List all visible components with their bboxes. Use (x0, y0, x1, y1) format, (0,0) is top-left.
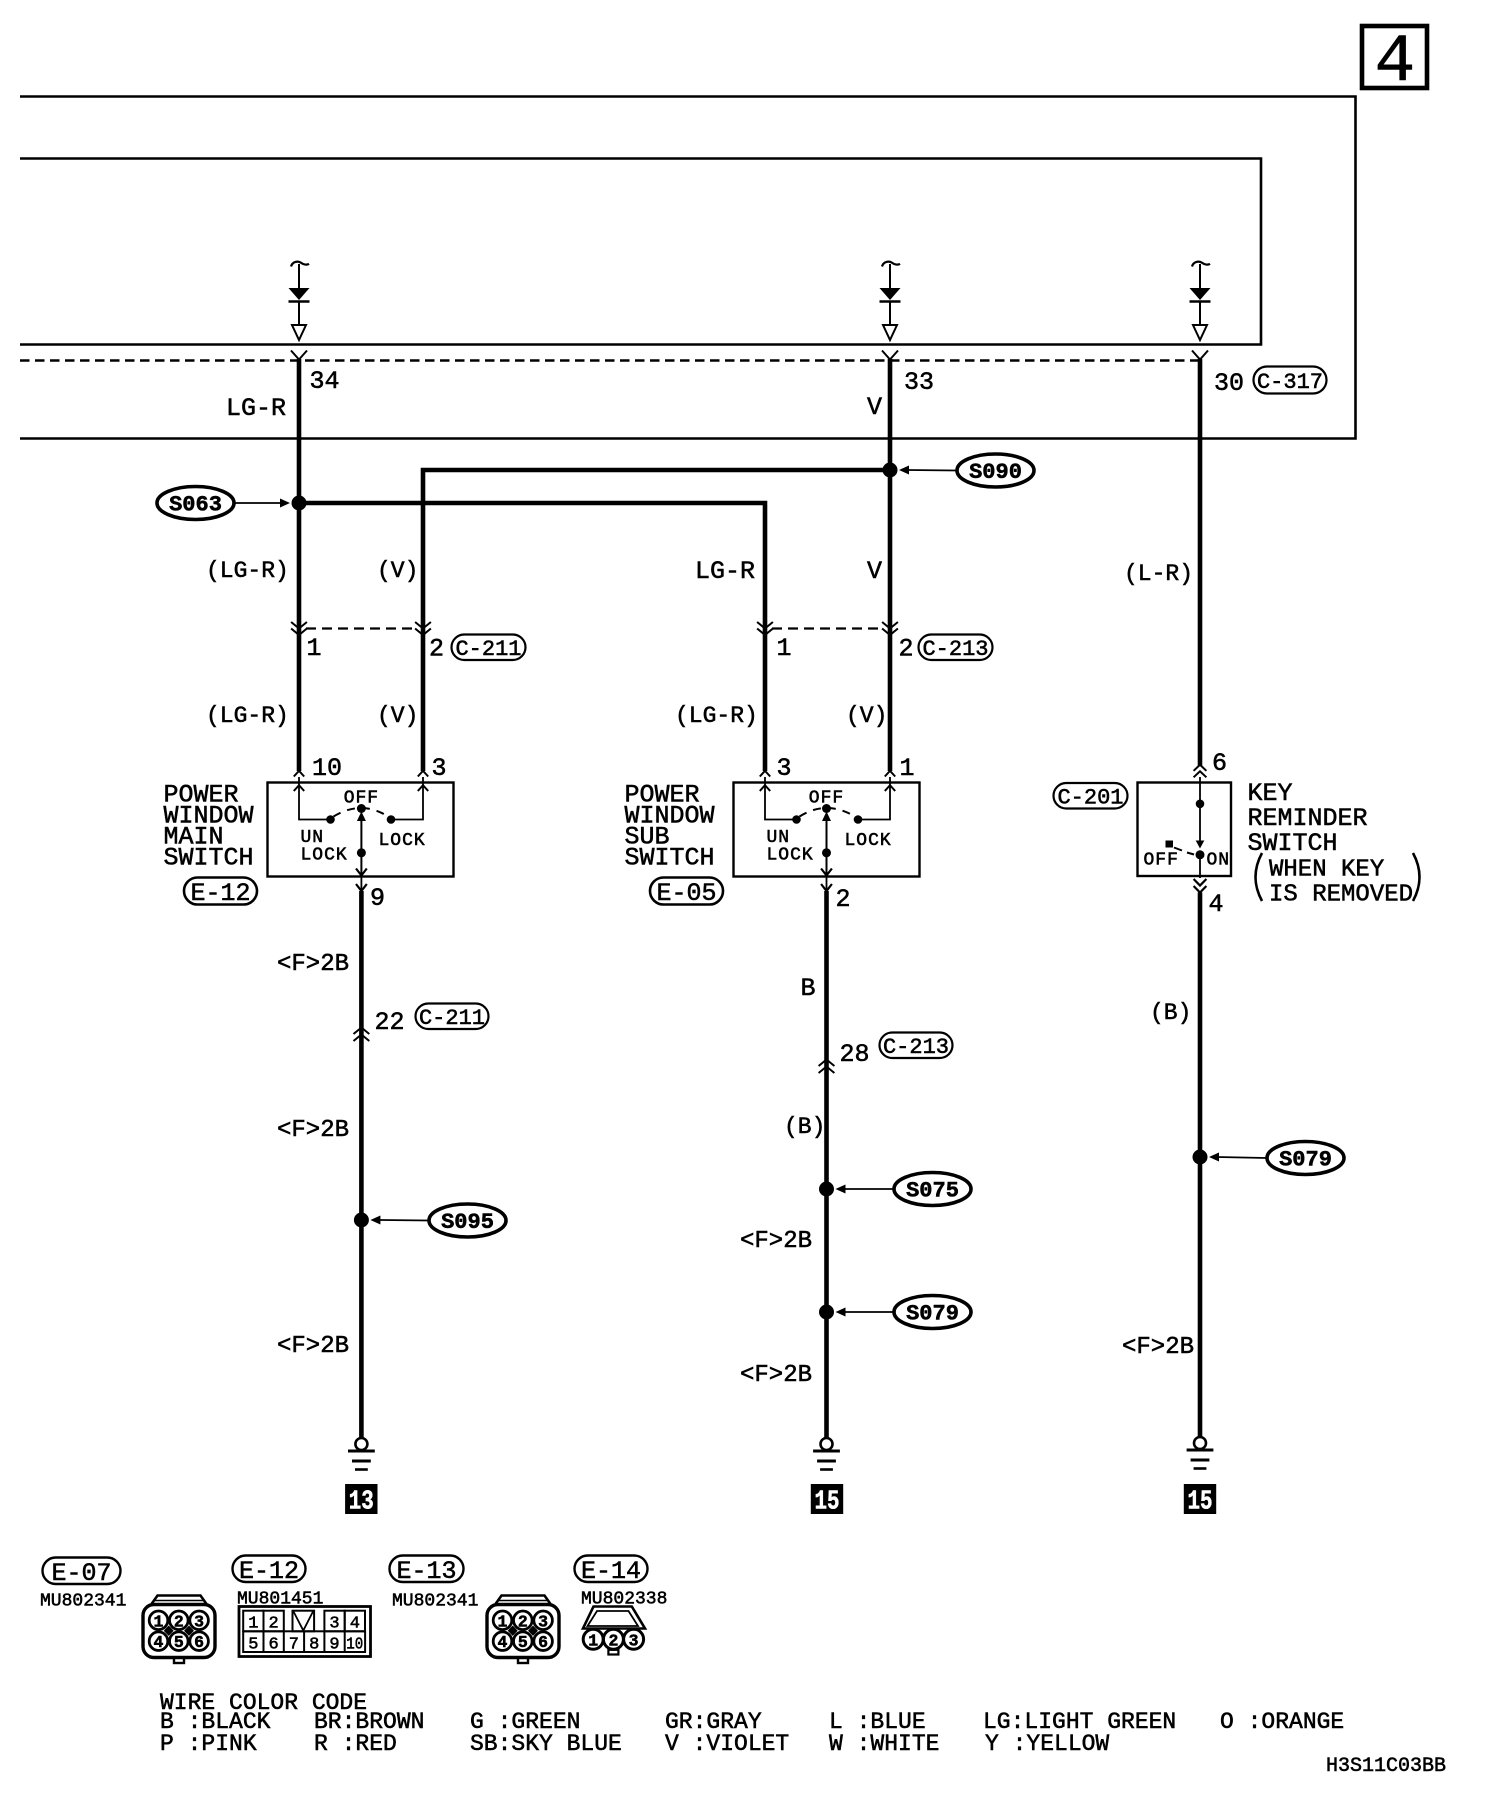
ground page ref 15 col3 (1184, 1484, 1216, 1518)
svg-text:<F>2B: <F>2B (277, 951, 349, 978)
splice S075 label (836, 1173, 972, 1206)
svg-text:3: 3 (538, 1612, 548, 1631)
svg-text:V: V (867, 393, 882, 422)
connector C-213 label lower (880, 1033, 953, 1061)
connector E-14 face view (583, 1607, 645, 1655)
wire W6 ground wire from key switch pin 4 (1198, 893, 1203, 1438)
label C-213 pin 2 (899, 635, 914, 664)
svg-text:P :PINK: P :PINK (160, 1731, 257, 1757)
node pin 34 pass-through C-317 (291, 351, 307, 360)
label pin 9 (370, 884, 385, 913)
label (WHEN KEY IS REMOVED) (1256, 853, 1420, 909)
splice S095 label (370, 1204, 506, 1237)
svg-text:6: 6 (538, 1633, 548, 1652)
label C-211 pin 1 (307, 634, 322, 663)
connector E-07 label (43, 1558, 121, 1588)
svg-text:C-213: C-213 (883, 1035, 949, 1060)
svg-text:(LG-R): (LG-R) (206, 703, 289, 729)
label POWER WINDOW MAIN SWITCH (164, 781, 254, 873)
label (F)2B col1 c (277, 1333, 349, 1360)
label (V) lower left (377, 703, 418, 729)
svg-text:LG-R: LG-R (695, 557, 755, 586)
label pin 33 (904, 368, 934, 397)
page number 4 box (1362, 24, 1427, 101)
splice S095 junction dot (354, 1213, 369, 1228)
wire inner harness box (20, 159, 1261, 345)
label WIRE COLOR CODE table (160, 1690, 1344, 1757)
wire W2 V vertical x=890 (888, 359, 893, 771)
svg-text:30: 30 (1214, 369, 1244, 398)
label pin 3 main (432, 754, 447, 783)
svg-text:10: 10 (346, 1635, 363, 1654)
svg-text:2: 2 (174, 1612, 184, 1631)
svg-text:S075: S075 (906, 1179, 959, 1204)
splice S079 label col2 (836, 1296, 972, 1329)
svg-text:<F>2B: <F>2B (740, 1362, 812, 1389)
svg-text:E-07: E-07 (51, 1559, 111, 1588)
label C-211 pin 2 (429, 635, 444, 664)
svg-text:13: 13 (349, 1488, 374, 1518)
ground G1 (348, 1438, 375, 1470)
label (B) col2 (784, 1114, 825, 1140)
svg-text:SB:SKY BLUE: SB:SKY BLUE (470, 1731, 622, 1757)
node pin 30 pass-through C-317 (1192, 351, 1208, 360)
label MU802341 E-07 (40, 1592, 126, 1612)
svg-text:2: 2 (836, 885, 851, 914)
svg-text:S079: S079 (906, 1302, 959, 1327)
svg-text:2: 2 (518, 1612, 528, 1631)
label (V) lower mid (846, 703, 887, 729)
svg-text:B: B (801, 974, 816, 1003)
label LG-R (695, 557, 755, 586)
label pin 2 (836, 885, 851, 914)
svg-text:2: 2 (608, 1631, 618, 1650)
label MU801451 (237, 1590, 323, 1610)
wire dashed connector bus line (20, 359, 1199, 362)
splice S079 junction dot col3 (1193, 1150, 1208, 1165)
connector C-213 label (919, 635, 993, 663)
svg-text:6: 6 (194, 1633, 204, 1652)
svg-text:34: 34 (310, 367, 340, 396)
svg-text:(V): (V) (846, 703, 887, 729)
svg-text:2: 2 (899, 635, 914, 664)
svg-text:1: 1 (777, 634, 792, 663)
svg-text:S095: S095 (441, 1210, 494, 1235)
switch U2 power window sub switch (734, 771, 920, 891)
svg-text:1: 1 (307, 634, 322, 663)
svg-text:7: 7 (289, 1635, 299, 1654)
label (F)2B col2 b (740, 1362, 812, 1389)
svg-text:1: 1 (248, 1615, 258, 1634)
svg-text:4: 4 (498, 1633, 508, 1652)
svg-text:OFF: OFF (1144, 851, 1179, 871)
label drawing number H3S11C03BB (1326, 1755, 1446, 1778)
connector C-211 crossing (291, 622, 431, 635)
svg-text:H3S11C03BB: H3S11C03BB (1326, 1755, 1446, 1778)
switch U1 power window main switch (268, 771, 454, 891)
connector E-14 label (575, 1556, 648, 1586)
label MU802341 E-13 (392, 1592, 478, 1612)
svg-text:W :WHITE: W :WHITE (829, 1731, 939, 1757)
ground page ref 13 (345, 1484, 377, 1518)
svg-text:S063: S063 (169, 493, 222, 518)
diode D3 (1190, 262, 1211, 340)
svg-text:LOCK: LOCK (379, 831, 426, 851)
wire branch from S063 to sub switch LG-R (299, 503, 765, 771)
svg-text:C-211: C-211 (455, 637, 521, 662)
label B col2 (801, 974, 816, 1003)
label (L-R) (1124, 561, 1193, 587)
diode D1 (289, 262, 310, 340)
label (F)2B col1 b (277, 1117, 349, 1144)
svg-text:3: 3 (432, 754, 447, 783)
svg-text:8: 8 (309, 1635, 319, 1654)
svg-text:S079: S079 (1279, 1148, 1332, 1173)
label (B) col3 (1150, 1000, 1191, 1026)
node pin 33 pass-through C-317 (882, 351, 898, 360)
label pin 22 (375, 1008, 405, 1037)
connector C-211 label lower (416, 1004, 489, 1032)
svg-text:4: 4 (154, 1633, 164, 1652)
ground G3 (1187, 1437, 1214, 1469)
label KEY REMINDER SWITCH (1248, 779, 1368, 858)
svg-text:(LG-R): (LG-R) (206, 558, 289, 584)
connector E-12 face view (239, 1607, 371, 1657)
svg-text:E-12: E-12 (190, 879, 250, 908)
svg-text:E-12: E-12 (239, 1557, 299, 1586)
label pin 6 key (1212, 749, 1227, 778)
connector E-13 label (390, 1556, 464, 1586)
label wire color V (867, 393, 882, 422)
svg-text:<F>2B: <F>2B (740, 1228, 812, 1255)
svg-text:(L-R): (L-R) (1124, 561, 1193, 587)
label wire color LG-R (226, 394, 286, 423)
svg-text:6: 6 (268, 1635, 278, 1654)
label POWER WINDOW SUB SWITCH (625, 781, 715, 873)
splice S090 label (899, 454, 1034, 487)
connector C-211 label (452, 635, 526, 663)
label C-213 pin 1 (777, 634, 792, 663)
wire branch from S090 to main switch V (423, 470, 890, 771)
label pin 4 (1209, 890, 1224, 919)
svg-text:15: 15 (815, 1488, 840, 1518)
svg-text:(V): (V) (377, 703, 418, 729)
wire W4 ground wire from main switch pin 9 (359, 891, 364, 1438)
connector E-13 face view (487, 1596, 559, 1664)
svg-text:IS REMOVED: IS REMOVED (1269, 882, 1413, 909)
svg-text:LG-R: LG-R (226, 394, 286, 423)
svg-text:MU802341: MU802341 (392, 1592, 478, 1612)
svg-text:33: 33 (904, 368, 934, 397)
svg-text:<F>2B: <F>2B (277, 1333, 349, 1360)
label pin 30 (1214, 369, 1244, 398)
svg-text:ON: ON (1207, 851, 1231, 871)
label (V) (377, 558, 418, 584)
label (LG-R) lower left (206, 703, 289, 729)
label (F)2B col3 (1122, 1334, 1194, 1361)
connector E-07 face view (143, 1596, 215, 1664)
svg-text:C-201: C-201 (1057, 786, 1123, 811)
svg-text:LOCK: LOCK (845, 831, 892, 851)
label MU802338 (581, 1590, 667, 1610)
svg-text:V :VIOLET: V :VIOLET (665, 1731, 789, 1757)
splice S063 label (157, 487, 290, 520)
svg-text:4: 4 (350, 1615, 360, 1634)
svg-text:(B): (B) (1150, 1000, 1191, 1026)
svg-text:Y :YELLOW: Y :YELLOW (985, 1731, 1109, 1757)
wire outer harness box (20, 97, 1356, 439)
svg-text:C-211: C-211 (419, 1006, 485, 1031)
label pin 10 (312, 754, 342, 783)
svg-text:1: 1 (588, 1631, 598, 1650)
svg-text:5: 5 (174, 1633, 184, 1652)
label pin 28 (840, 1040, 870, 1069)
label pin 34 (310, 367, 340, 396)
svg-text:1: 1 (900, 754, 915, 783)
svg-text:E-13: E-13 (396, 1557, 456, 1586)
svg-text:1: 1 (498, 1612, 508, 1631)
svg-text:<F>2B: <F>2B (1122, 1334, 1194, 1361)
svg-text:5: 5 (248, 1635, 258, 1654)
svg-text:(B): (B) (784, 1114, 825, 1140)
svg-text:LOCK: LOCK (767, 846, 814, 866)
wire W1 LG-R vertical x=299 (297, 359, 302, 771)
svg-text:22: 22 (375, 1008, 405, 1037)
svg-text:10: 10 (312, 754, 342, 783)
splice S075 junction dot (819, 1182, 834, 1197)
svg-text:15: 15 (1188, 1488, 1213, 1518)
svg-text:(V): (V) (377, 558, 418, 584)
label pin 3 sub (777, 754, 792, 783)
svg-text:O :ORANGE: O :ORANGE (1220, 1709, 1344, 1735)
svg-text:5: 5 (518, 1633, 528, 1652)
connector E-05 label (650, 878, 723, 909)
label (F)2B col2 a (740, 1228, 812, 1255)
connector E-12 label (184, 878, 257, 909)
ground page ref 15 col2 (811, 1484, 843, 1518)
wire W3 L-R vertical x=1200 (1198, 359, 1203, 766)
svg-text:SWITCH: SWITCH (164, 844, 254, 873)
label (LG-R) lower mid (675, 703, 758, 729)
label (F)2B col1 a (277, 951, 349, 978)
svg-text:(LG-R): (LG-R) (675, 703, 758, 729)
label V (867, 557, 882, 586)
svg-text:WHEN KEY: WHEN KEY (1269, 857, 1384, 884)
svg-text:C-317: C-317 (1257, 370, 1323, 395)
svg-text:2: 2 (429, 635, 444, 664)
svg-text:E-14: E-14 (581, 1557, 641, 1586)
svg-text:R :RED: R :RED (314, 1731, 397, 1757)
diode D2 (880, 262, 901, 340)
ground G2 (813, 1438, 840, 1470)
connector C-317 label (1254, 367, 1327, 395)
svg-text:S090: S090 (969, 460, 1022, 485)
svg-text:SWITCH: SWITCH (625, 844, 715, 873)
label pin 1 sub (900, 754, 915, 783)
svg-text:3: 3 (329, 1615, 339, 1634)
svg-text:MU802341: MU802341 (40, 1592, 126, 1612)
splice S063 junction dot (292, 496, 307, 511)
switch U3 key reminder switch (1138, 765, 1232, 893)
connector E-12 label bottom (233, 1556, 306, 1586)
svg-text:V: V (867, 557, 882, 586)
svg-text:2: 2 (268, 1615, 278, 1634)
wire W5 ground wire from sub switch pin 2 (824, 891, 829, 1438)
svg-text:C-213: C-213 (922, 637, 988, 662)
splice S079 junction dot col2 (819, 1305, 834, 1320)
label (LG-R) (206, 558, 289, 584)
svg-text:3: 3 (194, 1612, 204, 1631)
connector C-211 crossing 22 (354, 1028, 370, 1042)
splice S079 label col3 (1209, 1142, 1344, 1175)
svg-text:3: 3 (777, 754, 792, 783)
svg-text:4: 4 (1375, 24, 1416, 101)
svg-text:9: 9 (329, 1635, 339, 1654)
connector C-213 crossing (757, 622, 898, 635)
connector C-201 label (1054, 783, 1128, 811)
svg-text:LOCK: LOCK (301, 846, 348, 866)
svg-text:E-05: E-05 (656, 879, 716, 908)
connector C-213 crossing 28 (819, 1060, 835, 1074)
svg-text:3: 3 (629, 1631, 639, 1650)
svg-text:<F>2B: <F>2B (277, 1117, 349, 1144)
svg-text:9: 9 (370, 884, 385, 913)
svg-text:1: 1 (154, 1612, 164, 1631)
splice S090 junction dot (883, 463, 898, 478)
svg-text:4: 4 (1209, 890, 1224, 919)
svg-text:28: 28 (840, 1040, 870, 1069)
svg-text:6: 6 (1212, 749, 1227, 778)
